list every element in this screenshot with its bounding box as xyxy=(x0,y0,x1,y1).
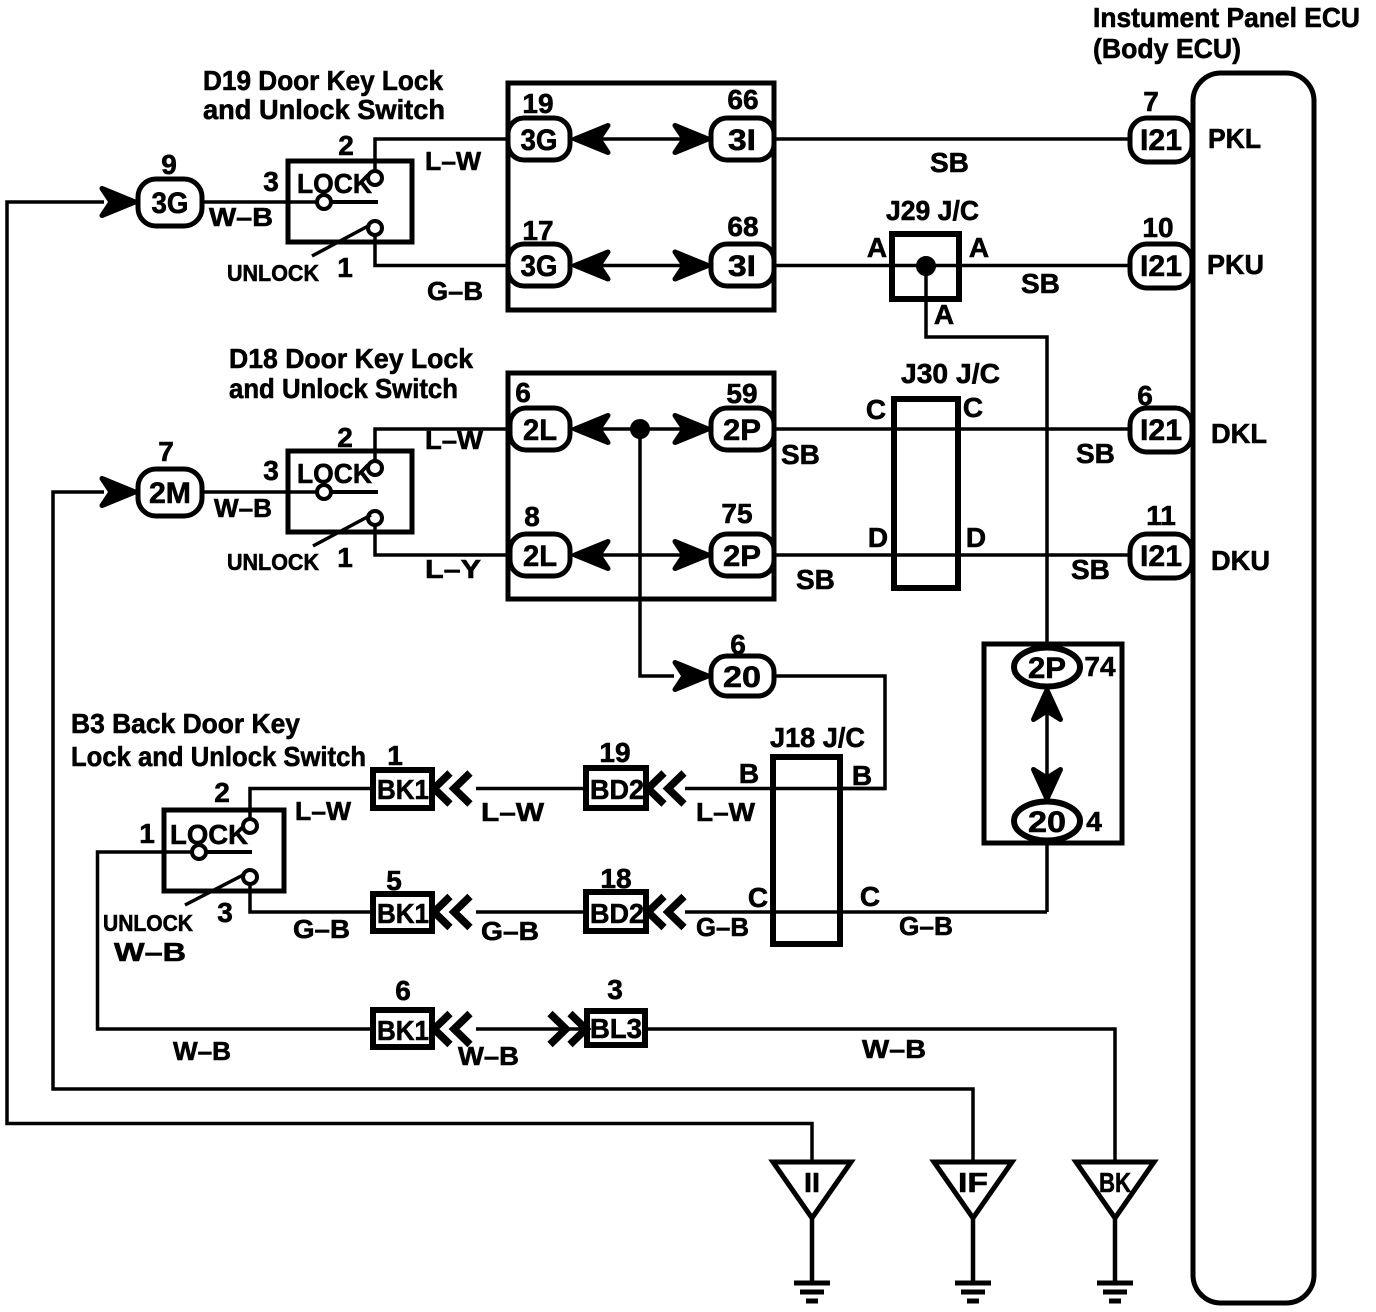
D18 switch box xyxy=(288,451,412,532)
switch common contact D19 xyxy=(317,195,331,209)
svg-text:and Unlock Switch: and Unlock Switch xyxy=(203,94,445,125)
switch lever D19 xyxy=(331,200,378,204)
svg-text:W–B: W–B xyxy=(173,1036,231,1066)
wire BL3 right and down to ground BK xyxy=(645,1029,1115,1162)
chevrons toward BK1 pin 6 xyxy=(434,1014,450,1045)
connector oval 20 pin 6 xyxy=(711,656,774,696)
chevrons toward BD2 pin 19 xyxy=(648,773,664,804)
wire 2M pin7 to switch common xyxy=(202,490,318,494)
svg-text:SB: SB xyxy=(781,439,820,470)
svg-text:J29 J/C: J29 J/C xyxy=(886,195,979,226)
svg-text:1: 1 xyxy=(387,740,403,771)
wire BK1-6 to BL3 xyxy=(476,1027,587,1031)
svg-text:LOCK: LOCK xyxy=(297,458,372,489)
svg-text:3I: 3I xyxy=(728,250,756,283)
svg-text:SB: SB xyxy=(1076,438,1115,469)
svg-text:(Body ECU): (Body ECU) xyxy=(1093,33,1241,64)
svg-text:W–B: W–B xyxy=(458,1041,519,1071)
ground triangle II xyxy=(773,1162,851,1218)
wire BD2-18 through J18 row C to 2P74 drop xyxy=(685,910,1047,914)
svg-text:2P: 2P xyxy=(1028,652,1066,685)
connector oval 3G pin 9 xyxy=(138,179,202,226)
Instrument Panel ECU (Body ECU) body outline xyxy=(1193,73,1314,1303)
svg-text:W–B: W–B xyxy=(114,937,186,967)
svg-text:D18 Door Key Lock: D18 Door Key Lock xyxy=(229,343,473,374)
svg-text:I21: I21 xyxy=(1140,414,1182,447)
wire row B to ECU pin 10 xyxy=(774,264,1130,268)
wire from J29 dot down right and down to 2P74 box xyxy=(926,266,1047,648)
switch contact pin3 B3 xyxy=(243,870,257,884)
connector box 2P74/204 xyxy=(984,644,1122,843)
connector oval 2P pin 74 xyxy=(1014,648,1080,687)
ground stem BK xyxy=(1113,1218,1118,1283)
connector oval 2L pin 8 xyxy=(510,534,570,576)
svg-text:I21: I21 xyxy=(1140,540,1182,573)
arrow into connector 2M pin 7 xyxy=(102,479,135,506)
svg-text:2P: 2P xyxy=(723,414,761,447)
svg-text:UNLOCK: UNLOCK xyxy=(227,549,319,575)
svg-text:3: 3 xyxy=(217,897,233,928)
svg-text:BD2: BD2 xyxy=(590,898,644,929)
switch common contact B3 xyxy=(192,845,206,859)
svg-text:BK: BK xyxy=(1099,1167,1131,1198)
wire row C to ECU pin 6 xyxy=(774,427,1130,431)
wire from row C junction dot down to 20 pin 6 row xyxy=(640,429,674,676)
arrow into connector 3G pin 9 xyxy=(102,189,135,216)
wire 3G pin9 to switch common xyxy=(202,200,318,204)
svg-text:A: A xyxy=(934,299,954,330)
connector oval 2M pin 7 xyxy=(138,469,202,516)
switch lever B3 xyxy=(206,850,252,854)
ground symbol II xyxy=(794,1281,830,1286)
arrow right row A xyxy=(675,126,708,153)
chevrons toward BK1 pin 1 xyxy=(434,773,450,804)
arrow right row B xyxy=(675,252,708,279)
svg-text:3G: 3G xyxy=(152,187,189,220)
arrow into oval 20 pin 6 xyxy=(675,663,708,690)
wire row D to ECU pin 11 xyxy=(774,553,1130,557)
svg-text:6: 6 xyxy=(395,975,411,1006)
svg-text:B: B xyxy=(852,760,872,791)
D18 connector box xyxy=(508,373,774,599)
svg-text:Instument Panel ECU: Instument Panel ECU xyxy=(1093,2,1360,33)
svg-text:UNLOCK: UNLOCK xyxy=(103,910,193,936)
arrow right row D xyxy=(675,542,708,569)
svg-text:3: 3 xyxy=(263,166,279,197)
D19 switch box xyxy=(288,161,412,242)
connector oval 2P pin 75 xyxy=(711,534,774,576)
svg-text:IF: IF xyxy=(958,1167,988,1198)
svg-text:J18 J/C: J18 J/C xyxy=(770,722,865,753)
svg-text:2: 2 xyxy=(338,130,354,161)
junction dot row C xyxy=(632,421,648,437)
svg-text:68: 68 xyxy=(727,211,758,242)
connector oval I21 pin 11 xyxy=(1130,534,1192,578)
svg-text:8: 8 xyxy=(524,501,540,532)
svg-text:UNLOCK: UNLOCK xyxy=(227,260,319,286)
unlock pointer line B3 xyxy=(185,874,245,905)
svg-text:11: 11 xyxy=(1146,500,1176,531)
junction dot J29 xyxy=(918,258,934,274)
arrow left row A xyxy=(575,126,608,153)
connector box BD2 pin 18 xyxy=(586,892,646,931)
junction box J18 xyxy=(773,757,840,944)
ground triangle IF xyxy=(934,1162,1012,1218)
svg-text:2: 2 xyxy=(337,422,353,453)
svg-text:9: 9 xyxy=(161,149,177,180)
svg-text:2P: 2P xyxy=(723,540,761,573)
svg-text:C: C xyxy=(860,881,880,912)
arrow left row D xyxy=(575,542,608,569)
switch lever D18 xyxy=(331,490,378,494)
connector box BK1 pin 1 xyxy=(373,770,432,808)
switch contact pin2 D19 xyxy=(368,171,382,185)
connector oval 3I pin 66 xyxy=(711,118,774,160)
svg-text:J30 J/C: J30 J/C xyxy=(901,358,1000,389)
svg-text:L–W: L–W xyxy=(425,425,483,455)
svg-text:I21: I21 xyxy=(1140,250,1182,283)
switch common contact D18 xyxy=(317,485,331,499)
svg-text:7: 7 xyxy=(158,436,174,467)
ground symbol BK xyxy=(1097,1281,1133,1286)
chevrons toward BL3 xyxy=(550,1014,566,1045)
wire BD2-19 to J18 row B xyxy=(685,787,885,791)
svg-text:C: C xyxy=(963,392,983,423)
svg-text:D: D xyxy=(966,522,986,553)
arrow left row B xyxy=(575,252,608,279)
switch contact pin2 B3 xyxy=(243,819,257,833)
connector oval 2L pin 6 xyxy=(510,408,570,450)
svg-text:LOCK: LOCK xyxy=(297,168,372,199)
svg-text:20: 20 xyxy=(723,661,761,694)
unlock pointer line D19 xyxy=(312,225,370,256)
svg-text:L–W: L–W xyxy=(481,797,545,827)
svg-text:BL3: BL3 xyxy=(590,1013,642,1044)
chevrons toward BK1 pin 5 xyxy=(434,897,450,928)
svg-text:PKU: PKU xyxy=(1207,249,1264,280)
svg-text:L–W: L–W xyxy=(295,796,351,826)
wire row A to ECU pin 7 xyxy=(774,137,1130,141)
svg-text:L–Y: L–Y xyxy=(425,554,481,584)
svg-text:2L: 2L xyxy=(523,540,557,573)
junction box J30 xyxy=(894,399,958,588)
svg-text:1: 1 xyxy=(139,818,155,849)
svg-text:BK1: BK1 xyxy=(377,898,429,929)
arrow up to 2P74 xyxy=(1034,690,1061,720)
wire row A inside box xyxy=(570,137,711,141)
svg-text:B: B xyxy=(739,758,759,789)
svg-text:3: 3 xyxy=(607,974,623,1005)
B3 switch box xyxy=(164,810,284,891)
svg-text:A: A xyxy=(969,232,989,263)
ground stem IF xyxy=(971,1218,976,1283)
wire switch pin1 down to row B xyxy=(375,235,508,266)
wire B3 pin2 up to BK1 row xyxy=(250,789,373,820)
svg-text:W–B: W–B xyxy=(214,493,272,523)
svg-text:3: 3 xyxy=(263,455,279,486)
svg-text:DKU: DKU xyxy=(1211,545,1270,576)
svg-text:7: 7 xyxy=(1143,86,1159,117)
D19 connector box xyxy=(508,83,774,310)
switch contact pin1 D18 xyxy=(368,511,382,525)
svg-text:BD2: BD2 xyxy=(590,774,644,805)
svg-text:6: 6 xyxy=(515,377,531,408)
svg-text:G–B: G–B xyxy=(481,916,539,946)
svg-text:10: 10 xyxy=(1142,212,1173,243)
switch contact pin2 D18 xyxy=(368,461,382,475)
wire switch pin2 up to row A xyxy=(375,139,508,171)
connector oval 2P pin 59 xyxy=(711,408,774,450)
wire switch pin2 up to row C xyxy=(375,429,508,461)
unlock pointer line D18 xyxy=(313,515,371,546)
svg-text:SB: SB xyxy=(796,564,835,595)
svg-text:G–B: G–B xyxy=(427,276,483,306)
svg-text:BK1: BK1 xyxy=(377,1015,429,1046)
svg-text:19: 19 xyxy=(599,737,630,768)
svg-text:C: C xyxy=(866,394,886,425)
svg-text:2L: 2L xyxy=(523,414,557,447)
svg-text:PKL: PKL xyxy=(1208,123,1261,154)
wire BK1-5 to BD2-18 xyxy=(476,910,586,914)
connector box BL3 pin 3 xyxy=(587,1011,645,1045)
chevrons toward BD2 pin 18 xyxy=(648,897,664,928)
svg-text:W–B: W–B xyxy=(209,202,273,232)
switch contact pin1 D19 xyxy=(368,221,382,235)
svg-text:D19 Door Key Lock: D19 Door Key Lock xyxy=(203,65,443,96)
svg-text:B3 Back Door Key: B3 Back Door Key xyxy=(71,708,300,739)
svg-text:3G: 3G xyxy=(521,124,558,157)
svg-text:74: 74 xyxy=(1084,651,1116,682)
wire B3 pin3 down to BK1-5 row xyxy=(250,884,373,912)
svg-text:G–B: G–B xyxy=(293,914,350,944)
svg-text:I21: I21 xyxy=(1140,124,1182,157)
svg-text:DKL: DKL xyxy=(1211,418,1267,449)
svg-text:1: 1 xyxy=(337,542,353,573)
wire switch pin1 down to row D xyxy=(375,525,508,555)
svg-text:75: 75 xyxy=(721,498,752,529)
wire BK1-1 to BD2-19 xyxy=(476,787,586,791)
wire row D inside box xyxy=(570,553,711,557)
svg-text:3G: 3G xyxy=(521,250,558,283)
connector box BD2 pin 19 xyxy=(586,768,646,808)
wire row C inside box xyxy=(570,427,711,431)
svg-text:66: 66 xyxy=(727,84,758,115)
svg-text:20: 20 xyxy=(1028,806,1066,839)
connector oval 20 pin 4 xyxy=(1014,802,1080,841)
wire: second long wire from D18 arrow down and across to ground IF xyxy=(53,492,973,1162)
ground symbol IF xyxy=(955,1281,991,1286)
svg-text:SB: SB xyxy=(1021,268,1060,299)
ground stem II xyxy=(810,1218,815,1283)
arrow left row C xyxy=(575,416,608,443)
svg-text:A: A xyxy=(867,232,887,263)
connector oval 3G pin 17 xyxy=(508,244,570,286)
svg-text:2: 2 xyxy=(214,777,230,808)
svg-text:SB: SB xyxy=(1071,554,1110,585)
connector oval 3I pin 68 xyxy=(711,244,774,286)
svg-text:1: 1 xyxy=(337,252,353,283)
ground triangle BK xyxy=(1076,1162,1154,1218)
svg-text:19: 19 xyxy=(522,88,553,119)
svg-text:G–B: G–B xyxy=(696,912,749,942)
connector box BK1 pin 5 xyxy=(373,894,432,931)
svg-text:C: C xyxy=(748,882,768,913)
wire: far-left long wire from D19 arrow down and across to ground II xyxy=(7,202,812,1162)
svg-text:BK1: BK1 xyxy=(377,774,429,805)
connector oval I21 pin 10 xyxy=(1130,244,1192,288)
svg-text:G–B: G–B xyxy=(899,911,953,941)
svg-text:2M: 2M xyxy=(149,477,191,510)
svg-text:SB: SB xyxy=(930,147,969,178)
inner wire between arrows xyxy=(1045,690,1049,800)
svg-text:L–W: L–W xyxy=(696,797,755,827)
wire oval 20 to J18 row B xyxy=(774,676,885,789)
svg-text:and Unlock Switch: and Unlock Switch xyxy=(229,373,458,404)
arrow down to 204 xyxy=(1034,770,1061,800)
connector oval I21 pin 6 xyxy=(1130,408,1192,452)
svg-text:L–W: L–W xyxy=(425,146,481,176)
svg-text:W–B: W–B xyxy=(862,1034,926,1064)
svg-text:Lock and Unlock Switch: Lock and Unlock Switch xyxy=(71,741,366,772)
connector box BK1 pin 6 xyxy=(373,1010,432,1047)
svg-text:17: 17 xyxy=(522,215,553,246)
wire row B inside box xyxy=(570,264,711,268)
junction box J29 xyxy=(892,234,959,299)
arrow right row C xyxy=(675,416,708,443)
connector oval I21 pin 7 xyxy=(1130,118,1192,162)
svg-text:D: D xyxy=(868,522,888,553)
svg-text:4: 4 xyxy=(1086,806,1102,837)
svg-text:II: II xyxy=(804,1167,820,1198)
connector oval 3G pin 19 xyxy=(508,118,570,160)
wire from oval 20 pin4 down to row C of J18 xyxy=(1045,841,1049,912)
svg-text:59: 59 xyxy=(726,378,757,409)
wire B3 common left and down xyxy=(98,852,374,1029)
svg-text:3I: 3I xyxy=(728,124,756,157)
svg-text:LOCK: LOCK xyxy=(170,819,248,850)
